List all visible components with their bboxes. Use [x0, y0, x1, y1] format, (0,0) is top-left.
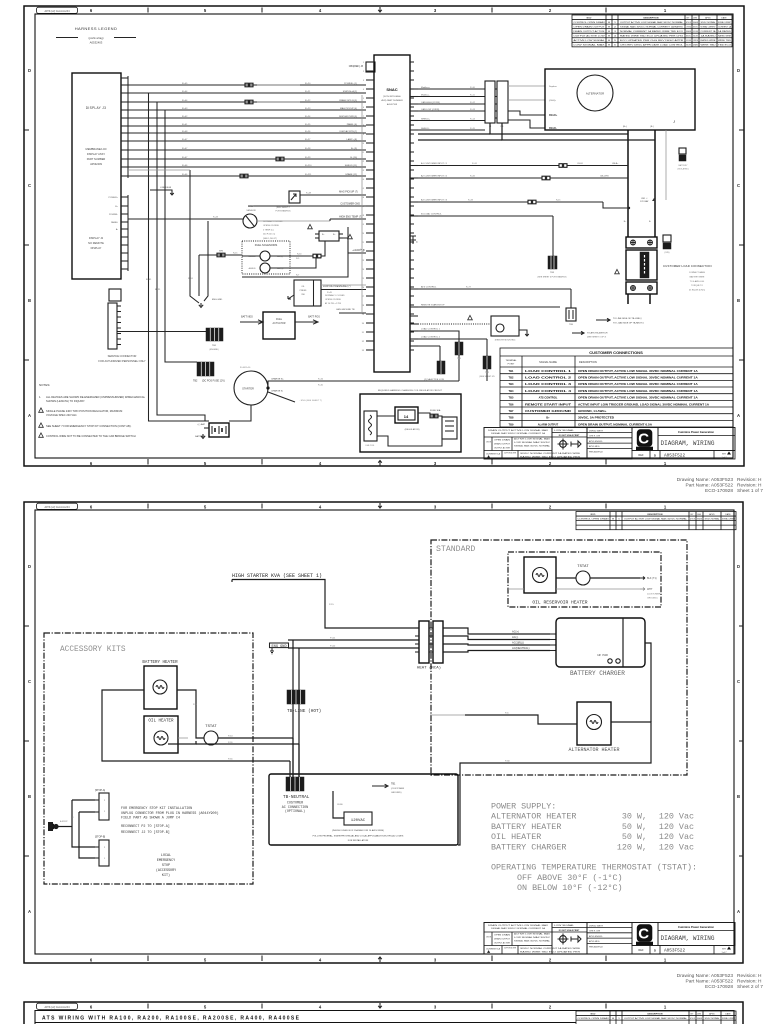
- svg-text:MAX 30VDC: MAX 30VDC: [686, 35, 691, 38]
- svg-text:OUTPUT ACTIVE LOW: OUTPUT ACTIVE LOW: [574, 35, 606, 38]
- emergency stop pushbutton: [48, 822, 53, 831]
- svg-text:WIRE TBD: WIRE TBD: [718, 40, 732, 42]
- svg-text:UNPLUG CONNECTOR FROM PLUG IN: UNPLUG CONNECTOR FROM PLUG IN HARNESS (A…: [121, 811, 219, 816]
- terminal block TB1 engine: [206, 328, 223, 341]
- svg-text:LOW SIGNAL MAX 30VDC: LOW SIGNAL MAX 30VDC: [514, 936, 551, 939]
- svg-text:P-10: P-10: [228, 736, 233, 738]
- svg-text:(+) BAT: (+) BAT: [198, 423, 206, 426]
- breaker body: [626, 250, 657, 280]
- svg-text:TB3: TB3: [509, 382, 514, 386]
- svg-text:TSTAT: TSTAT: [205, 725, 217, 729]
- svg-text:TEMP: TEMP: [248, 206, 255, 208]
- svg-text:ATS CONTROL: ATS CONTROL: [539, 396, 558, 400]
- svg-text:NORMAL CURRENT: NORMAL CURRENT: [686, 44, 691, 47]
- bus wire y134: [490, 123, 628, 134]
- svg-text:LAMP+ (8): LAMP+ (8): [346, 138, 357, 141]
- svg-text:STATUS+A (2): STATUS+A (2): [343, 90, 357, 93]
- svg-text:Part Name: A053F522: Part Name: A053F522: [686, 483, 734, 489]
- svg-text:TB2: TB2: [509, 376, 514, 380]
- svg-text:OIL HEATER: OIL HEATER: [148, 720, 174, 724]
- svg-text:RATED WIRE TBD ECO UPDATED PER: RATED WIRE TBD ECO UPDATED PER CHG: [620, 35, 683, 38]
- svg-text:R+21: R+21: [155, 289, 161, 291]
- svg-text:ACCESSORY KITS: ACCESSORY KITS: [60, 646, 126, 654]
- svg-text:ECO-170928: ECO-170928: [705, 488, 733, 494]
- svg-text:30VDC, 5A PROTECTED: 30VDC, 5A PROTECTED: [578, 416, 614, 420]
- svg-text:SIGNAL MAX: SIGNAL MAX: [693, 21, 698, 24]
- svg-text:DIAGRAM, WIRING: DIAGRAM, WIRING: [661, 935, 715, 942]
- alternator heater return loop: [458, 722, 651, 845]
- svg-text:DISPLAY: DISPLAY: [91, 246, 102, 250]
- svg-text:DISPLAY J2: DISPLAY J2: [89, 236, 104, 240]
- svg-text:(B-): (B-): [650, 126, 654, 128]
- SNAC right pins mid group: [410, 165, 418, 167]
- svg-text:(SEE SHEET 2: (SEE SHEET 2: [276, 207, 290, 209]
- svg-text:CUSTOMER GROUND: CUSTOMER GROUND: [525, 409, 571, 413]
- wire bus display J3 to SNAC: [128, 84, 366, 86]
- svg-text:APVD ENGRG: APVD ENGRG: [589, 935, 603, 938]
- svg-text:REF: REF: [638, 453, 644, 457]
- isolated battery sense connector: [679, 148, 686, 154]
- ac feed wires left: [288, 639, 419, 641]
- svg-text:⊣JACK⊢ B: ⊣JACK⊢ B: [352, 248, 365, 252]
- title block tolerance table: [484, 428, 552, 460]
- svg-text:SIGNAL MAX 30VDC NORMAL: SIGNAL MAX 30VDC NORMAL: [514, 940, 550, 943]
- svg-text:ALTERNATOR HEATER: ALTERNATOR HEATER: [568, 747, 619, 753]
- svg-text:CURRENT 1A: CURRENT 1A: [693, 39, 698, 42]
- inline fuse on shield wire: [240, 174, 243, 178]
- svg-text:CB-B+: CB-B+: [612, 163, 619, 165]
- svg-text:(DC POS FUSE 12V): (DC POS FUSE 12V): [202, 380, 225, 383]
- svg-text:A053F522: A053F522: [664, 949, 685, 954]
- high temp switch wire: [330, 218, 366, 220]
- title block tolerance table: [484, 923, 552, 955]
- svg-text:50 W,: 50 W,: [622, 822, 647, 832]
- drawn/checked cells: [587, 428, 632, 460]
- projection symbols cell: [552, 923, 587, 955]
- svg-text:A0?3 (ref) Cummins R4: A0?3 (ref) Cummins R4: [44, 10, 70, 13]
- svg-text:30 W,: 30 W,: [622, 812, 647, 822]
- engine gauge box: [491, 316, 519, 336]
- svg-text:CRANK SPD B (3): CRANK SPD B (3): [339, 99, 357, 102]
- svg-text:KIT): KIT): [162, 873, 170, 878]
- svg-text:HIGH ENG TEMP ⟨7⟩: HIGH ENG TEMP ⟨7⟩: [339, 216, 362, 219]
- svg-text:(prefix w/tag): (prefix w/tag): [89, 36, 104, 40]
- svg-text:D: D: [28, 68, 31, 73]
- svg-text:OPEN DRAIN OUTPUT, ACTIVE LOW: OPEN DRAIN OUTPUT, ACTIVE LOW SIGNAL 30V…: [578, 369, 698, 373]
- svg-text:TB2: TB2: [193, 380, 198, 383]
- fused box enclosure: [269, 774, 458, 845]
- fuel actuator block: [263, 312, 295, 339]
- svg-text:SENSOR: SENSOR: [246, 210, 256, 212]
- svg-text:120 W,: 120 W,: [617, 842, 647, 852]
- fuel solenoid R: [260, 263, 270, 273]
- oil heater box: [144, 716, 178, 753]
- tb1 customer ground arrow: [372, 784, 388, 788]
- svg-text:DESCRIPTION: DESCRIPTION: [644, 17, 659, 19]
- svg-text:P-15: P-15: [329, 604, 334, 606]
- svg-text:A: A: [737, 413, 740, 418]
- svg-text:R+26: R+26: [305, 131, 311, 133]
- sheet 1 inner border frame: [35, 14, 733, 458]
- svg-text:A0?3 (ref) Cummins R4: A0?3 (ref) Cummins R4: [44, 1006, 70, 1009]
- aux out wire: [418, 345, 440, 347]
- inline fuse on display power wire: [276, 157, 279, 161]
- svg-text:TB-NEUTRAL: TB-NEUTRAL: [283, 795, 310, 800]
- svg-text:(ENGINE): (ENGINE): [210, 349, 219, 351]
- svg-text:OUTPUT ACTIVE: OUTPUT ACTIVE: [504, 452, 517, 455]
- inline connector on wire y85: [245, 83, 248, 87]
- return wire below solenoids: [242, 241, 348, 277]
- svg-text:CONNECT 4AWG: CONNECT 4AWG: [689, 271, 706, 274]
- svg-text:(SEE SHEET 6 FOR EXAMPLE): (SEE SHEET 6 FOR EXAMPLE): [538, 276, 567, 279]
- wire TB1 drop to charge bus: [458, 355, 460, 381]
- svg-text:FIELD-: FIELD-: [549, 127, 557, 130]
- svg-text:TB7: TB7: [509, 409, 514, 413]
- svg-text:B-: B-: [649, 221, 651, 223]
- svg-text:30VDC NORMAL CURRENT 1A RATED: 30VDC NORMAL CURRENT 1A RATED WIRE: [520, 452, 581, 455]
- svg-text:Sheet 2 of 7: Sheet 2 of 7: [737, 984, 763, 990]
- svg-text:D: D: [28, 564, 31, 569]
- starter B+ junction: [266, 386, 269, 389]
- svg-text:DO NOT SCALE PRINT: DO NOT SCALE PRINT: [559, 434, 580, 437]
- oil pressure switch S2: [294, 280, 321, 306]
- svg-text:CHK R. LEE: CHK R. LEE: [589, 931, 601, 933]
- svg-text:REQUIRED HARNESS CHARGING COIL: REQUIRED HARNESS CHARGING COIL REGULATOR…: [378, 389, 443, 392]
- svg-text:Revision: H: Revision: H: [737, 477, 762, 483]
- svg-text:APVD MFG: APVD MFG: [589, 940, 600, 943]
- SNAC right pin stubs: [410, 61, 414, 63]
- svg-text:DISPLAY J3: DISPLAY J3: [86, 106, 106, 110]
- svg-text:ECO-170928: ECO-170928: [705, 984, 733, 990]
- svg-text:(CHG)-: (CHG)-: [549, 100, 556, 102]
- svg-text:C: C: [638, 926, 649, 943]
- svg-text:Part Name: A053F522: Part Name: A053F522: [686, 979, 734, 985]
- drops to tb-line: [292, 640, 294, 690]
- fuel solenoids dotted group: [242, 241, 290, 274]
- svg-text:SIGNAL MAX 30VDC NORMAL CURREN: SIGNAL MAX 30VDC NORMAL CURRENT 1A: [491, 927, 546, 930]
- svg-text:CUSTOMER LOAD CONNECTION: CUSTOMER LOAD CONNECTION: [663, 264, 712, 268]
- svg-text:LOW SIGNAL MAX 30VDC: LOW SIGNAL MAX 30VDC: [514, 441, 551, 444]
- svg-text:CHK R. LEE: CHK R. LEE: [589, 436, 601, 438]
- svg-text:ECO: ECO: [591, 514, 596, 516]
- svg-text:LOAD CONTROL 2: LOAD CONTROL 2: [421, 336, 441, 339]
- svg-text:DISPLAY ASSY: DISPLAY ASSY: [87, 152, 105, 156]
- svg-text:GEN GROUND TB: GEN GROUND TB: [336, 309, 355, 311]
- svg-text:30VDC NORMAL: 30VDC NORMAL: [693, 30, 698, 33]
- svg-text:(CUSTOMER: (CUSTOMER: [647, 594, 661, 596]
- svg-text:B: B: [737, 298, 740, 303]
- svg-text:BATT NEG: BATT NEG: [241, 316, 253, 319]
- tstat output wire: [218, 737, 293, 739]
- sheet 2 inner border frame: [35, 510, 734, 954]
- svg-text:PANEL (6): PANEL (6): [347, 123, 357, 126]
- svg-text:NORMAL CURRENT: NORMAL CURRENT: [718, 21, 731, 24]
- charger right tap: [645, 643, 651, 722]
- low oil pressure dotted wire: [418, 323, 491, 325]
- breaker outlet wires: [627, 294, 629, 299]
- bus wire y140: [502, 123, 655, 140]
- svg-text:LOW OIL PRESSURE ⟨7⟩: LOW OIL PRESSURE ⟨7⟩: [323, 285, 351, 288]
- svg-text:MAG PICKUP ⟨7⟩: MAG PICKUP ⟨7⟩: [339, 191, 358, 194]
- svg-text:OFF ABOVE 30°F (-1°C): OFF ABOVE 30°F (-1°C): [517, 873, 623, 883]
- B- feeder wire vertical: [654, 130, 656, 237]
- svg-text:(ACCESSORY: (ACCESSORY: [156, 868, 176, 873]
- svg-text:ENG GND: ENG GND: [272, 645, 287, 649]
- svg-text:R+04: R+04: [182, 91, 188, 93]
- svg-text:SIGNAL MAX: SIGNAL MAX: [686, 30, 691, 33]
- svg-text:CB-CHG: CB-CHG: [600, 176, 609, 178]
- svg-text:APVD: APVD: [709, 513, 715, 516]
- breaker aux connector: [663, 235, 671, 242]
- svg-text:Revision: H: Revision: H: [737, 973, 762, 979]
- svg-text:LOW SIGNAL: LOW SIGNAL: [554, 429, 575, 432]
- svg-text:A3 CUSTOMER INPUT #3: A3 CUSTOMER INPUT #3: [421, 199, 448, 202]
- svg-text:OUTPUT ACTIVE LOW SIGNAL MAX 3: OUTPUT ACTIVE LOW SIGNAL MAX 30VDC NORMA…: [624, 517, 688, 520]
- svg-text:IGN COIL: IGN COIL: [366, 445, 376, 447]
- svg-text:DRAIN OUTPUT ACTIVE: DRAIN OUTPUT ACTIVE: [574, 30, 606, 33]
- svg-text:LINE DATA: LINE DATA: [160, 186, 172, 189]
- load control 2 wire: [418, 338, 487, 340]
- svg-text:OPEN DRAIN: OPEN DRAIN: [494, 934, 511, 937]
- svg-text:LOAD CONTROL 2: LOAD CONTROL 2: [525, 376, 572, 380]
- svg-text:ALL DEVICES ARE SHOWN DE-ENERG: ALL DEVICES ARE SHOWN DE-ENERGIZED (UNPR…: [46, 395, 146, 399]
- svg-text:C: C: [638, 431, 649, 448]
- svg-text:NORMALLY CLOSED: NORMALLY CLOSED: [263, 220, 283, 223]
- svg-text:GROUND): GROUND): [647, 598, 658, 600]
- svg-text:OUTPUT ACTIVE: OUTPUT ACTIVE: [504, 947, 517, 950]
- svg-text:OPENS ON RISE: OPENS ON RISE: [325, 299, 341, 301]
- svg-text:SHIELD-: SHIELD-: [421, 128, 430, 130]
- svg-text:R+29: R+29: [305, 157, 311, 159]
- svg-text:POWER SUPPLY:: POWER SUPPLY:: [491, 802, 556, 812]
- svg-text:LOAD CONTROL 4: LOAD CONTROL 4: [525, 389, 572, 393]
- svg-text:OIL HEATER: OIL HEATER: [491, 832, 541, 842]
- svg-text:120 Vac: 120 Vac: [659, 842, 694, 852]
- svg-text:(24V): (24V): [665, 252, 670, 254]
- svg-text:CUSTOMER: CUSTOMER: [287, 801, 303, 805]
- svg-text:CAN HIGH (J1939): CAN HIGH (J1939): [421, 101, 440, 104]
- svg-text:R+24: R+24: [305, 116, 311, 118]
- svg-text:1A RATED: 1A RATED: [693, 44, 698, 47]
- svg-text:ACTIVE LOW SIGNAL MAX: ACTIVE LOW SIGNAL MAX: [514, 933, 551, 936]
- svg-text:LOCAL: LOCAL: [161, 854, 171, 858]
- svg-text:CHARGE B+: CHARGE B+: [271, 378, 284, 381]
- svg-text:DESCRIPTION: DESCRIPTION: [579, 360, 597, 364]
- terminal block TB2: [197, 362, 214, 376]
- svg-text:P+02: P+02: [330, 646, 336, 648]
- svg-text:(CUSTOMER: (CUSTOMER: [391, 788, 405, 790]
- svg-text:B+ (9): B+ (9): [351, 148, 357, 150]
- gray sense vertical: [361, 95, 363, 312]
- svg-text:PER A053F522: PER A053F522: [589, 946, 604, 949]
- svg-text:RECONNECT P2 TO [STOP-A]: RECONNECT P2 TO [STOP-A]: [121, 824, 170, 829]
- svg-text:SHOWN (LENGTH) TO INQUIRY.: SHOWN (LENGTH) TO INQUIRY.: [46, 399, 85, 403]
- svg-text:(INSIDE FUSED BOX 15A MAX FOR: (INSIDE FUSED BOX 15A MAX FOR 14 AWG WIR…: [332, 829, 384, 832]
- svg-text:TB9: TB9: [509, 422, 514, 426]
- svg-text:(REMOTE MOUNTED): (REMOTE MOUNTED): [495, 340, 516, 342]
- svg-text:TB8: TB8: [509, 416, 514, 420]
- svg-text:DWN A. SMITH: DWN A. SMITH: [589, 924, 603, 927]
- svg-text:AC(+): AC(+): [512, 630, 519, 634]
- charge wire from starter: [268, 381, 459, 388]
- svg-text:AC(1Ø(L)): AC(1Ø(L)): [512, 641, 524, 645]
- load control wire to TB3: [418, 215, 553, 217]
- svg-text:SHIELD (11): SHIELD (11): [345, 165, 358, 167]
- svg-text:P-60: P-60: [505, 761, 510, 763]
- svg-text:LOW SIGNAL: LOW SIGNAL: [554, 924, 575, 927]
- mating connector P4: [497, 81, 508, 123]
- svg-text:A0532409: A0532409: [90, 162, 102, 166]
- svg-text:Cummins Power Generation: Cummins Power Generation: [678, 925, 714, 929]
- svg-text:TO ATS TB-SWITCH: TO ATS TB-SWITCH: [587, 332, 608, 335]
- svg-text:LOAD CONTROL 1: LOAD CONTROL 1: [421, 328, 441, 331]
- svg-text:OPEN DRAIN OUTPUT, ACTIVE LOW: OPEN DRAIN OUTPUT, ACTIVE LOW SIGNAL 30V…: [578, 389, 698, 393]
- svg-text:R+02: R+02: [182, 116, 188, 118]
- wire vertical drop x148: [149, 93, 210, 421]
- svg-text:R+03: R+03: [182, 108, 188, 110]
- svg-text:SPARE (12): SPARE (12): [345, 173, 357, 176]
- actuator right lead with arrow: [295, 320, 318, 324]
- svg-text:AT 14 PSI ± 2 PSI: AT 14 PSI ± 2 PSI: [325, 302, 341, 305]
- svg-text:(ISOLATED): (ISOLATED): [677, 168, 688, 171]
- svg-text:ENG GND: ENG GND: [212, 299, 223, 301]
- svg-text:30VDC NORMAL CURRENT 1A RATED: 30VDC NORMAL CURRENT 1A RATED WIRE: [520, 947, 581, 950]
- svg-text:TO 4-AWG LUG: TO 4-AWG LUG: [690, 280, 705, 283]
- svg-text:CUSTOMER GND: CUSTOMER GND: [340, 203, 360, 206]
- svg-text:CB-B1: CB-B1: [577, 163, 584, 165]
- svg-text:SW: SW: [301, 294, 304, 296]
- svg-text:ACTIVE LOW: ACTIVE LOW: [690, 1017, 695, 1020]
- svg-text:30VDC NORMAL: 30VDC NORMAL: [701, 21, 717, 24]
- svg-text:R+28: R+28: [305, 148, 311, 150]
- svg-text:TB1: TB1: [509, 369, 514, 373]
- svg-text:AC CONNECTION: AC CONNECTION: [282, 806, 308, 810]
- sheet 1 top-left part-number box: [37, 7, 78, 13]
- svg-text:DATE: DATE: [721, 16, 727, 19]
- svg-text:1A RATED: 1A RATED: [701, 35, 717, 38]
- svg-text:TB1: TB1: [391, 783, 396, 786]
- svg-text:MAG PICKUP (4): MAG PICKUP (4): [340, 107, 357, 110]
- svg-text:1.: 1.: [39, 395, 41, 399]
- svg-text:R+20: R+20: [305, 83, 311, 85]
- svg-text:R+06: R+06: [182, 174, 188, 176]
- svg-text:NORMALLY CLOSED: NORMALLY CLOSED: [325, 294, 345, 297]
- svg-text:OPEN DRAIN OUTPUT, ACTIVE LOW: OPEN DRAIN OUTPUT, ACTIVE LOW SIGNAL 30V…: [578, 382, 698, 386]
- svg-text:A2 CUSTOMER INPUT #2: A2 CUSTOMER INPUT #2: [421, 175, 448, 178]
- charging-coil harness box: [360, 394, 461, 452]
- B+ feeder wire vertical: [627, 130, 629, 237]
- svg-text:120 Vac: 120 Vac: [659, 832, 694, 842]
- ats control wire to TB5: [418, 288, 571, 290]
- svg-text:SIGNAL MAX: SIGNAL MAX: [697, 517, 702, 520]
- svg-text:BATTERY WIRE: BATTERY WIRE: [690, 275, 705, 278]
- svg-text:BATTERY CHARGER: BATTERY CHARGER: [570, 670, 625, 677]
- svg-text:LOAD CONTROL 3: LOAD CONTROL 3: [525, 382, 572, 386]
- svg-text:R+04: R+04: [182, 100, 188, 102]
- svg-text:POINT: POINT: [508, 364, 515, 366]
- svg-text:Duplex+: Duplex+: [549, 86, 558, 88]
- svg-text:SIGNAL MAX 30VDC NORMAL CURREN: SIGNAL MAX 30VDC NORMAL CURRENT 1A: [491, 432, 546, 435]
- customer input #1 wire: [418, 165, 559, 167]
- svg-text:240 F (115 C): 240 F (115 C): [263, 234, 276, 236]
- svg-text:DATE: DATE: [725, 1012, 731, 1015]
- svg-text:Cummins Power Generation: Cummins Power Generation: [678, 430, 714, 434]
- svg-text:TO LINE SIDE OF TB-LINE ⟨⟩: TO LINE SIDE OF TB-LINE ⟨⟩: [613, 317, 642, 320]
- svg-text:ATS WIRING WITH RA100, RA2: ATS WIRING WITH RA100, RA200, RA100SE, R…: [42, 1016, 300, 1022]
- svg-text:CAN LOW (J1939): CAN LOW (J1939): [421, 108, 440, 111]
- svg-text:DATE: DATE: [725, 513, 731, 516]
- svg-text:BLK (T1): BLK (T1): [647, 577, 657, 580]
- svg-text:ACTUATOR: ACTUATOR: [273, 322, 286, 325]
- alternator heater box: [577, 702, 611, 745]
- svg-text:SERVICE CONNECTOR: SERVICE CONNECTOR: [108, 354, 137, 358]
- svg-text:(SEE SHEET 4/5: (SEE SHEET 4/5: [479, 376, 495, 378]
- svg-text:Sheet 1 of 7: Sheet 1 of 7: [737, 488, 763, 494]
- svg-text:APVD: APVD: [705, 16, 711, 19]
- svg-text:SEE SHEET 7 FOR EMERGENCY STOP: SEE SHEET 7 FOR EMERGENCY STOP KIT CONNE…: [46, 424, 132, 428]
- svg-text:B: B: [28, 298, 31, 303]
- svg-text:RATED WIRE TBD ECO UPDATED PER: RATED WIRE TBD ECO UPDATED PER: [520, 950, 581, 953]
- svg-text:ALARM OUTPUT: ALARM OUTPUT: [538, 422, 559, 426]
- svg-text:POWER-: POWER-: [109, 214, 118, 216]
- SPB fuse on fuel feed: [199, 254, 242, 256]
- svg-text:P+01: P+01: [330, 638, 336, 640]
- svg-text:Drawing Name: A053F523: Drawing Name: A053F523: [677, 477, 734, 483]
- svg-text:TB6: TB6: [509, 402, 514, 406]
- drops into tb terminals: [292, 738, 294, 777]
- svg-text:EMERGENCY: EMERGENCY: [157, 859, 175, 863]
- speed relay K1: [289, 191, 300, 203]
- svg-text:A053F522: A053F522: [664, 454, 685, 459]
- tb-line to tb-neutral drops: [292, 704, 294, 777]
- svg-text:DISPLAY RTN (7): DISPLAY RTN (7): [340, 130, 358, 133]
- svg-text:1 of 7: 1 of 7: [721, 952, 727, 954]
- svg-text:30VDC NORMAL: 30VDC NORMAL: [705, 1017, 721, 1020]
- svg-text:ALTERNATOR: ALTERNATOR: [586, 92, 604, 96]
- svg-text:R+25: R+25: [305, 124, 311, 126]
- standard group dash-dot box: [431, 540, 687, 775]
- sheet 3 outer border frame (top sliver): [24, 1002, 743, 1024]
- svg-text:CONTROL OPEN: CONTROL OPEN: [486, 937, 491, 939]
- svg-text:AVR) PART NUMBER: AVR) PART NUMBER: [381, 99, 403, 102]
- rectifier block 14: [395, 407, 418, 423]
- svg-text:PER A053F522: PER A053F522: [589, 451, 604, 454]
- svg-text:C: C: [737, 183, 740, 188]
- heater loop wires: [102, 690, 290, 761]
- svg-text:CB4(REF) J3: CB4(REF) J3: [349, 65, 364, 68]
- svg-text:OIL RESERVOIR HEATER: OIL RESERVOIR HEATER: [532, 600, 587, 606]
- sheet 3 top-left part-number box: [37, 1003, 78, 1009]
- svg-text:FOR INSTALLATION: FOR INSTALLATION: [348, 839, 369, 842]
- svg-text:SPB: SPB: [219, 251, 224, 253]
- svg-text:NORMAL CURRENT: NORMAL CURRENT: [722, 517, 735, 520]
- svg-text:SINGLE PHASE 240V TWO POSITION: SINGLE PHASE 240V TWO POSITION REGULATOR…: [46, 409, 122, 413]
- oil reservoir heater dash-dot box: [508, 552, 661, 607]
- revision history table: [576, 512, 736, 530]
- svg-text:ATS CONTROL: ATS CONTROL: [421, 286, 437, 289]
- svg-text:(REGULATOR): (REGULATOR): [405, 428, 420, 431]
- svg-text:B+: B+: [546, 416, 550, 420]
- svg-text:1 of 7: 1 of 7: [721, 457, 727, 459]
- Cummins logo: [632, 428, 658, 451]
- svg-text:DO NOT SCALE PRINT: DO NOT SCALE PRINT: [559, 929, 580, 932]
- svg-text:LOW SIGNAL: LOW SIGNAL: [686, 25, 691, 28]
- revision history table: [576, 1011, 736, 1024]
- svg-text:OUTPUT ACTIVE: OUTPUT ACTIVE: [494, 942, 511, 945]
- svg-text:PART NUMBER: PART NUMBER: [87, 157, 106, 161]
- svg-text:TB4: TB4: [509, 389, 514, 393]
- svg-text:NO REMOTE: NO REMOTE: [88, 241, 104, 245]
